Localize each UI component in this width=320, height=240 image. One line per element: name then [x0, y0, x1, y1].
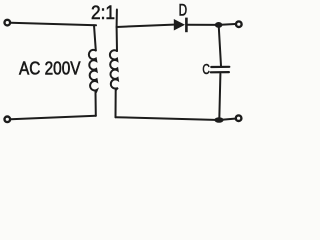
wire secondary top to diode	[117, 25, 174, 27]
wire primary top lead	[94, 25, 96, 50]
svg-text:D: D	[179, 1, 188, 19]
wire secondary top lead	[116, 10, 118, 52]
capacitor C bottom plate	[211, 71, 229, 73]
wire top-left horizontal	[11, 23, 96, 26]
terminal top-left	[5, 20, 11, 26]
junction node top (diode/capacitor/output)	[215, 22, 223, 28]
wire secondary bottom lead	[115, 90, 117, 118]
terminal top-right	[236, 21, 242, 27]
wire bottom horizontal to output	[116, 117, 236, 120]
wire primary bottom lead	[95, 92, 97, 116]
diode D1 cathode bar	[185, 18, 188, 33]
wire bottom-left horizontal	[11, 116, 96, 119]
wire diode to junction and terminal	[187, 23, 236, 26]
transformer T1 primary winding	[89, 50, 97, 92]
wire capacitor branch vertical	[219, 26, 221, 120]
diode D1 triangle	[174, 19, 185, 31]
terminal bottom-left	[5, 117, 11, 123]
terminal bottom-right	[236, 115, 242, 121]
svg-text:C: C	[202, 62, 210, 78]
capacitor C top plate	[211, 66, 229, 68]
svg-text:2:1: 2:1	[91, 3, 115, 24]
junction node bottom (capacitor/output)	[214, 117, 223, 123]
transformer T1 secondary winding	[110, 50, 118, 90]
svg-text:AC 200V: AC 200V	[19, 57, 81, 78]
